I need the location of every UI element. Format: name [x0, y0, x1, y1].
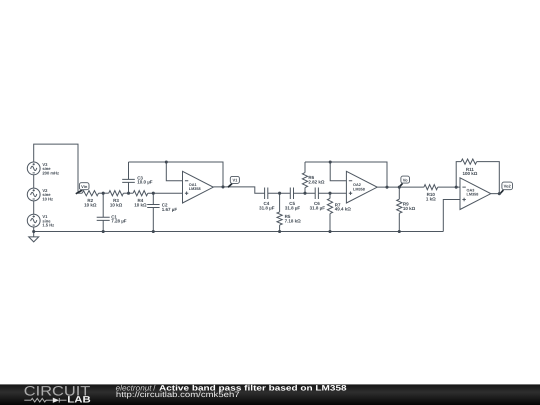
wire V1 to ground rail [33, 227, 35, 231]
junction rail C2 [152, 230, 155, 233]
voltage source V2 [27, 188, 53, 202]
wire Vin node to R2 [78, 192, 82, 194]
wire OA2 output [377, 186, 424, 188]
wire R2 to R3 [99, 192, 109, 194]
junction rail R5 [278, 230, 281, 233]
logo diode triangle [53, 398, 59, 403]
voltage source V1 [27, 214, 54, 228]
svg-text:LAB: LAB [67, 394, 91, 404]
capacitor C6 [310, 188, 347, 211]
svg-text:LM358: LM358 [467, 192, 479, 196]
svg-text:V1: V1 [232, 178, 238, 183]
resistor R11 [461, 159, 478, 176]
junction node C6 output R7 tap [328, 192, 331, 195]
svg-text:7.28 µF: 7.28 µF [111, 219, 127, 224]
node Vo2 flag [500, 182, 513, 194]
junction OA1 inverting input feedback [165, 160, 168, 163]
svg-text:Vo: Vo [403, 177, 408, 182]
junction node R4 output C2 tap [152, 192, 155, 195]
junction at ground below V1 [32, 230, 35, 233]
wire V2 to V1 [33, 201, 35, 214]
resistor R9 [397, 187, 416, 231]
junction rail R9 [398, 230, 401, 233]
wire OA3 plus input to ground rail [443, 200, 460, 232]
wire OA1 inverting input [166, 162, 182, 181]
svg-text:Vin: Vin [81, 184, 88, 189]
resistor R4 [133, 191, 148, 208]
junction node C4-C5 R5 tap [278, 192, 281, 195]
svg-text:1 kΩ: 1 kΩ [426, 196, 436, 201]
capacitor C5 [285, 188, 315, 211]
logo wire resistor and diode [24, 398, 66, 403]
svg-text:10 kΩ: 10 kΩ [134, 202, 147, 207]
svg-text:49.4 kΩ: 49.4 kΩ [335, 207, 352, 212]
node Vin flag [76, 183, 89, 194]
resistor R10 [424, 185, 438, 202]
resistor R5 [277, 193, 301, 231]
wire top loop from V3 to Vin node [34, 144, 78, 193]
junction OA2 output feedback [385, 186, 388, 189]
wire R11 to OA3 output [477, 162, 500, 194]
node Vo flag [399, 176, 410, 187]
wire R3 to R4 [123, 192, 133, 194]
svg-text:10 kΩ: 10 kΩ [110, 202, 123, 207]
junction node C5-C6 R6 tap [303, 192, 306, 195]
voltage source V3 [27, 162, 59, 176]
wire OA2 feedback top [305, 162, 387, 187]
svg-text:200 mHz: 200 mHz [42, 170, 59, 175]
svg-text:http://circuitlab.com/cmk5eh7: http://circuitlab.com/cmk5eh7 [116, 390, 240, 399]
wire OA1 output [213, 187, 264, 193]
resistor R3 [109, 191, 124, 208]
svg-text:2.82 kΩ: 2.82 kΩ [308, 180, 325, 185]
op-amp OA3 [460, 178, 491, 210]
capacitor C3 [122, 162, 153, 193]
svg-text:LM358: LM358 [353, 187, 365, 191]
junction node Vo R9 tap [398, 186, 401, 189]
wire OA1 feedback top [129, 162, 224, 187]
svg-text:10 kΩ: 10 kΩ [84, 202, 97, 207]
op-amp OA1 [183, 171, 214, 203]
ground rail [34, 231, 444, 233]
svg-text:7.18 kΩ: 7.18 kΩ [285, 219, 302, 224]
wire R10 to OA3 [438, 186, 460, 188]
resistor R2 [82, 191, 98, 208]
resistor R6 [302, 162, 325, 193]
wire OA3 feedback left riser to R11 [456, 162, 461, 188]
junction OA1 output feedback [221, 185, 224, 188]
svg-text:Vo2: Vo2 [504, 184, 512, 189]
junction OA2 inverting input feedback [329, 160, 332, 163]
svg-text:1.67 µF: 1.67 µF [162, 207, 178, 212]
svg-text:10.0 µF: 10.0 µF [137, 180, 153, 185]
svg-text:100 kΩ: 100 kΩ [462, 171, 477, 176]
svg-text:31.8 µF: 31.8 µF [310, 205, 326, 210]
wire OA2 inverting input [330, 162, 346, 181]
capacitor C2 [147, 193, 177, 231]
junction rail C1 [102, 230, 105, 233]
resistor R7 [327, 193, 351, 231]
junction node R2-R3 C1 tap [102, 192, 105, 195]
svg-text:1.5 Hz: 1.5 Hz [42, 223, 54, 228]
junction OA3 inverting input feedback [455, 186, 458, 189]
ground [29, 232, 39, 242]
junction rail R7 [328, 230, 331, 233]
capacitor C1 [97, 193, 127, 231]
svg-text:31.8 µF: 31.8 µF [259, 205, 275, 210]
wire R4 to OA1 noninverting input [148, 192, 183, 194]
junction OA3 output feedback [498, 192, 501, 195]
svg-text:31.8 µF: 31.8 µF [285, 205, 301, 210]
node V1 flag [228, 176, 239, 187]
svg-text:10 kΩ: 10 kΩ [403, 206, 416, 211]
op-amp OA2 [346, 171, 377, 203]
svg-text:LM358: LM358 [189, 187, 201, 191]
svg-text:10 Hz: 10 Hz [42, 197, 53, 202]
wire V3 to V2 [33, 175, 35, 188]
capacitor C4 [259, 188, 290, 211]
wire OA3 output [491, 193, 501, 195]
junction node R3-R4 C3 tap [127, 192, 130, 195]
